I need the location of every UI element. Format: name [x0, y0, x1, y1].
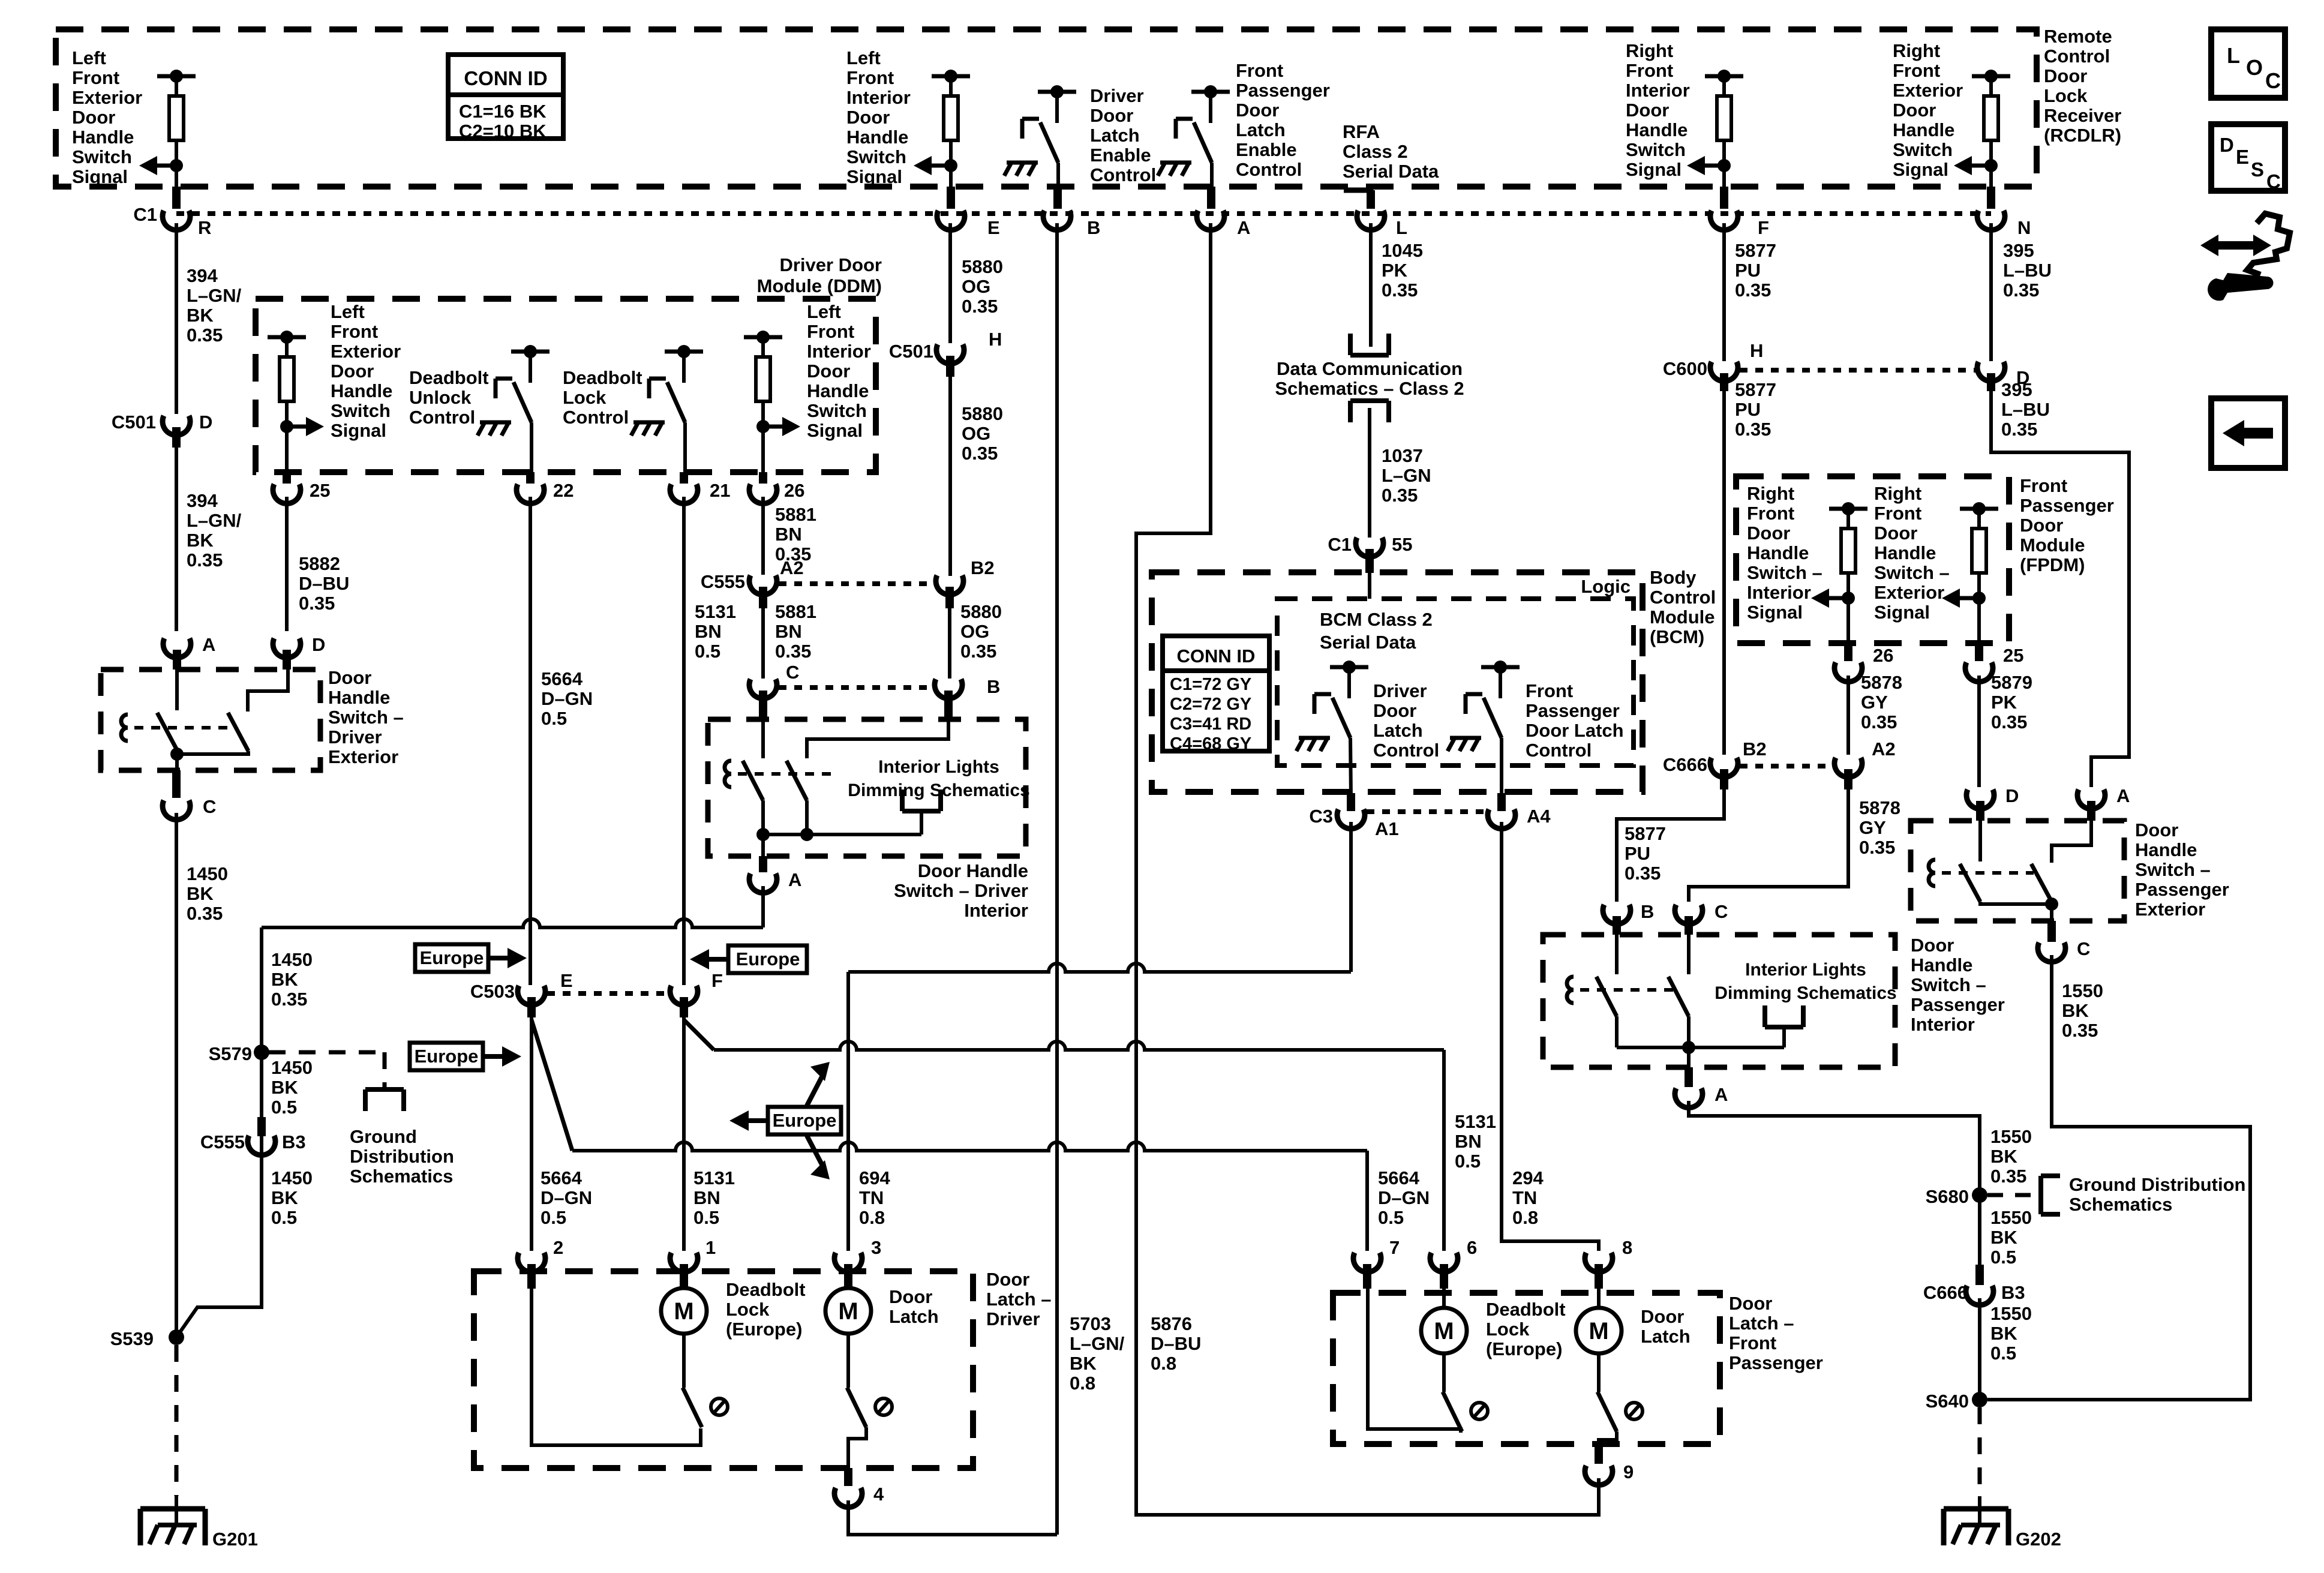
tag: Europe (to 5664 lower)	[410, 1043, 521, 1070]
svg-text:5703: 5703	[1070, 1313, 1111, 1334]
svg-text:CONN ID: CONN ID	[1177, 646, 1256, 667]
symbol: data communication link (lower bracket)	[1350, 401, 1389, 422]
svg-text:C1=72 GY: C1=72 GY	[1170, 675, 1251, 694]
svg-text:H: H	[989, 329, 1002, 350]
connector door latch passenger pin 8	[1585, 1237, 1632, 1289]
connector C666 pin B3	[1923, 1265, 2025, 1305]
svg-text:M: M	[1434, 1318, 1454, 1344]
label: 395 L-BU 0.35 (upper)	[2003, 240, 2052, 301]
label: 5877 PU 0.35 (middle)	[1735, 379, 1776, 440]
svg-text:1450: 1450	[271, 1057, 313, 1078]
symbol: ground distribution schematics link (passenger)	[2041, 1176, 2060, 1214]
svg-text:Front: Front	[1729, 1332, 1776, 1353]
svg-text:5131: 5131	[693, 1167, 735, 1188]
svg-text:(BCM): (BCM)	[1650, 626, 1704, 647]
svg-text:A: A	[788, 869, 801, 890]
pin tick R	[172, 187, 181, 209]
svg-text:Handle: Handle	[1911, 954, 1972, 975]
wire 5131 (F down to pin 1)	[682, 1017, 686, 1251]
svg-text:0.35: 0.35	[187, 325, 223, 346]
label: 5131 BN 0.5 (lower)	[693, 1167, 735, 1228]
svg-text:Left: Left	[331, 301, 365, 322]
text: Right Front Exterior Door Handle Switch Signal	[1893, 40, 1963, 180]
wire: S539 to G201 (dashed)	[175, 1345, 179, 1525]
svg-text:1550: 1550	[1990, 1126, 2032, 1147]
svg-text:0.35: 0.35	[187, 550, 223, 571]
svg-text:M: M	[838, 1298, 858, 1325]
pin tick E	[947, 187, 955, 209]
svg-text:3: 3	[871, 1237, 881, 1258]
wire: switch A down to ground run	[761, 886, 765, 927]
label: 395 L-BU 0.35 (lower)	[2001, 379, 2050, 440]
svg-text:Latch –: Latch –	[986, 1289, 1052, 1310]
label: 1450 BK 0.35 (S579 branch)	[271, 949, 313, 1010]
svg-text:Exterior: Exterior	[1893, 80, 1963, 101]
wire: pin 9 to 5876 run	[1597, 1478, 1601, 1479]
component box: door handle switch - driver exterior	[101, 670, 320, 770]
svg-text:C1: C1	[133, 204, 157, 225]
svg-text:B2: B2	[971, 557, 995, 578]
svg-text:C1: C1	[1328, 534, 1352, 555]
wire 1045 PK (L to data comm)	[1369, 223, 1373, 347]
wire 5879 PK (25 to exterior switch D)	[1977, 676, 1981, 787]
svg-text:4: 4	[873, 1484, 884, 1505]
pin tick N	[1987, 187, 1995, 209]
svg-text:Latch: Latch	[1641, 1326, 1691, 1347]
text: Ground Distribution Schematics (driver)	[350, 1126, 454, 1187]
svg-text:5877: 5877	[1735, 240, 1776, 261]
label: 5131 BN 0.5 (upper)	[695, 601, 736, 662]
label: 5877 PU 0.35 (top)	[1735, 240, 1776, 301]
wire 5880 OG (H to C555 B2)	[948, 377, 952, 576]
module box: Driver Door Module (DDM)	[256, 299, 876, 472]
svg-text:0.5: 0.5	[271, 1097, 297, 1118]
svg-text:Serial Data: Serial Data	[1343, 161, 1439, 182]
svg-text:0.35: 0.35	[1991, 712, 2027, 733]
label: 1450 BK 0.35	[187, 863, 228, 924]
svg-text:5877: 5877	[1625, 823, 1666, 844]
svg-text:Interior: Interior	[964, 900, 1028, 921]
svg-text:Deadbolt: Deadbolt	[563, 367, 642, 388]
connector C555 pin B2	[936, 557, 995, 608]
connector DDM pin 26	[749, 472, 804, 503]
svg-text:5880: 5880	[960, 601, 1002, 622]
svg-text:BK: BK	[1990, 1146, 2017, 1167]
svg-text:Switch – Driver: Switch – Driver	[894, 880, 1028, 901]
svg-text:0.35: 0.35	[1735, 280, 1771, 301]
svg-text:BN: BN	[1455, 1131, 1482, 1152]
wire: passenger latch enable to connector A	[1210, 163, 1214, 187]
svg-text:5882: 5882	[299, 553, 340, 574]
wire 395 L-BU (N to C600 D)	[1989, 223, 1993, 361]
wire 5877 PU (H to C666 B2)	[1722, 391, 1726, 755]
svg-text:Handle: Handle	[846, 127, 908, 148]
label: 5878 GY 0.35 (upper)	[1861, 672, 1902, 733]
wire: DDM lf int to pin 26	[761, 427, 765, 472]
wire 5703 L-GN/BK (B down to door latch driver)	[1055, 223, 1059, 1535]
switch: driver deadbolt motor limit	[683, 1334, 728, 1427]
svg-text:Remote: Remote	[2044, 26, 2112, 47]
svg-text:Exterior: Exterior	[331, 341, 401, 362]
svg-text:1550: 1550	[2062, 980, 2103, 1001]
connector C501 pin D	[112, 412, 213, 448]
splice S579	[209, 1043, 269, 1064]
svg-text:Latch: Latch	[1373, 720, 1423, 741]
svg-text:Handle: Handle	[1893, 119, 1954, 140]
svg-text:5878: 5878	[1861, 672, 1902, 693]
connector BCM C1 pin 55	[1328, 534, 1412, 573]
connector C1 pin F	[1710, 211, 1769, 238]
svg-text:Front: Front	[1526, 680, 1573, 701]
svg-text:9: 9	[1623, 1461, 1634, 1482]
text: Left Front Exterior Door Handle Switch Signal	[72, 47, 142, 187]
svg-text:0.35: 0.35	[299, 593, 335, 614]
connector C1 pin A	[1197, 211, 1250, 238]
svg-text:D–GN: D–GN	[541, 688, 593, 709]
svg-text:0.8: 0.8	[859, 1207, 885, 1228]
svg-text:Passenger: Passenger	[1729, 1352, 1823, 1373]
svg-text:Schematics: Schematics	[350, 1166, 453, 1187]
resistor: right front door handle switch interior (FPDM)	[1811, 502, 1867, 608]
svg-text:Passenger: Passenger	[1526, 700, 1620, 721]
svg-text:0.5: 0.5	[541, 708, 567, 729]
svg-text:Europe: Europe	[420, 947, 484, 968]
text: Deadbolt Unlock Control	[409, 367, 489, 428]
label: 5877 PU 0.35 (lower)	[1625, 823, 1666, 884]
svg-text:BK: BK	[187, 530, 214, 551]
text: Door Handle Switch - Passenger Exterior	[2135, 819, 2229, 920]
text: Deadbolt Lock Control	[563, 367, 642, 428]
connector: passenger exterior switch pin D	[1966, 785, 2019, 821]
text: Left Front Exterior Door Handle Switch Signal (DDM)	[331, 301, 401, 441]
svg-text:Handle: Handle	[1874, 542, 1936, 563]
svg-text:R: R	[198, 217, 211, 238]
svg-text:Switch: Switch	[807, 400, 867, 421]
svg-text:BN: BN	[775, 524, 802, 545]
connector DDM pin 25	[273, 472, 330, 503]
svg-text:E: E	[560, 970, 573, 991]
svg-text:0.8: 0.8	[1070, 1373, 1095, 1394]
svg-text:Door: Door	[846, 107, 890, 128]
label: 694 TN 0.8	[859, 1167, 890, 1228]
switch: front passenger door latch control (BCM)	[1448, 661, 1520, 751]
wire: driver latch control to C3 A1	[1350, 738, 1351, 798]
switch: door handle driver exterior (two blades)	[121, 670, 288, 770]
wire: driver deadbolt return to pin 2	[532, 1289, 701, 1445]
label: 5131 BN 0.5 (passenger side)	[1455, 1111, 1496, 1172]
connector BCM C3 pin A1	[1309, 793, 1398, 839]
svg-text:1045: 1045	[1382, 240, 1423, 261]
svg-text:BK: BK	[187, 305, 214, 326]
connector C600 pin H	[1663, 340, 1764, 391]
svg-text:BK: BK	[271, 969, 298, 990]
svg-text:Control: Control	[563, 407, 629, 428]
svg-text:8: 8	[1622, 1237, 1632, 1258]
svg-text:O: O	[2246, 55, 2263, 80]
svg-text:Control: Control	[1526, 740, 1592, 761]
svg-text:BCM Class 2: BCM Class 2	[1320, 609, 1433, 630]
svg-text:Switch –: Switch –	[1747, 562, 1822, 583]
svg-text:F: F	[711, 970, 723, 991]
svg-text:C: C	[2265, 68, 2281, 93]
resistor: right front exterior door handle switch (in top box)	[1954, 70, 2010, 175]
connector door latch driver pin 1	[670, 1237, 716, 1289]
label: 394 L-GN/BK 0.35 (lower)	[187, 490, 242, 571]
ground G202	[1944, 1509, 2061, 1550]
svg-text:0.35: 0.35	[187, 903, 223, 924]
svg-text:Lock: Lock	[1486, 1319, 1530, 1340]
wire: lf ext switch signal to connector R	[175, 166, 178, 187]
svg-text:Front: Front	[807, 321, 854, 342]
wire 5664 (E down to pin 2)	[530, 1017, 533, 1251]
svg-text:395: 395	[2003, 240, 2034, 261]
svg-text:Handle: Handle	[328, 687, 390, 708]
connector FPDM pin 26	[1834, 643, 1893, 682]
connector door latch passenger pin 6	[1430, 1237, 1477, 1289]
svg-text:Front: Front	[1747, 503, 1794, 524]
svg-text:0.35: 0.35	[1990, 1166, 2026, 1187]
connector: driver interior switch pin A	[749, 834, 801, 893]
connector: driver exterior switch pin C	[163, 770, 216, 819]
svg-text:Latch: Latch	[889, 1306, 939, 1327]
svg-text:Exterior: Exterior	[1874, 582, 1944, 603]
svg-text:Logic: Logic	[1581, 576, 1631, 597]
svg-text:(Europe): (Europe)	[726, 1319, 802, 1340]
connector C600 pin D	[1977, 362, 2029, 391]
wire: lf int switch signal to connector E	[949, 166, 953, 187]
tag: Europe (three-arrow, lower)	[729, 1062, 841, 1179]
svg-text:D–GN: D–GN	[541, 1187, 592, 1208]
svg-text:Handle: Handle	[331, 380, 392, 401]
svg-text:Europe: Europe	[415, 1046, 479, 1067]
text: Ground Distribution Schematics (passenger)	[2069, 1174, 2245, 1215]
svg-text:0.35: 0.35	[775, 641, 811, 662]
svg-text:294: 294	[1512, 1167, 1544, 1188]
svg-text:Door: Door	[807, 361, 850, 382]
svg-text:Left: Left	[807, 301, 841, 322]
wire: S640 to G202 (dashed)	[1978, 1407, 1982, 1525]
svg-text:5878: 5878	[1859, 797, 1900, 818]
svg-text:GY: GY	[1859, 817, 1886, 838]
svg-text:PK: PK	[1991, 692, 2017, 713]
splice S539	[110, 1328, 184, 1349]
svg-text:C503: C503	[470, 981, 515, 1002]
symbol: data communication link (upper bracket)	[1350, 334, 1389, 355]
svg-text:Schematics: Schematics	[2069, 1194, 2172, 1215]
wire 294 TN (A4 to passenger door latch)	[1502, 822, 1599, 1251]
connector DDM pin 22	[517, 472, 574, 503]
svg-text:L–BU: L–BU	[2003, 260, 2052, 281]
svg-text:L–GN/: L–GN/	[1070, 1333, 1125, 1354]
svg-text:C555: C555	[200, 1131, 245, 1152]
wire 5881 BN (26 to C555 A2)	[761, 497, 765, 575]
svg-text:5131: 5131	[695, 601, 736, 622]
label: 5881 BN 0.35 (lower)	[775, 601, 816, 662]
svg-text:Exterior: Exterior	[328, 746, 398, 767]
svg-text:C600: C600	[1663, 358, 1707, 379]
svg-text:Left: Left	[846, 47, 881, 68]
wire 1550 BK (A to S680)	[1689, 1101, 1980, 1188]
text: Driver Door Latch Control	[1373, 680, 1439, 761]
svg-text:Control: Control	[1373, 740, 1439, 761]
svg-text:D–BU: D–BU	[1151, 1333, 1201, 1354]
svg-text:5876: 5876	[1151, 1313, 1192, 1334]
svg-text:C: C	[2266, 170, 2281, 193]
component box: interior lights dimming (passenger door handle switch interior)	[1543, 935, 1895, 1067]
text: Deadbolt Lock (Europe) passenger	[1486, 1299, 1566, 1359]
svg-text:Driver Door: Driver Door	[779, 254, 882, 275]
svg-text:L–BU: L–BU	[2001, 399, 2050, 420]
svg-text:0.5: 0.5	[1378, 1207, 1404, 1228]
svg-text:Driver: Driver	[328, 727, 382, 748]
wire 1550 BK (C to S640 loop)	[1987, 955, 2250, 1400]
connector door latch passenger pin 7	[1353, 1237, 1400, 1289]
svg-text:Passenger: Passenger	[1911, 994, 2005, 1015]
component box: door handle switch - passenger exterior	[1911, 821, 2124, 921]
ground G201	[140, 1509, 258, 1550]
table: CONN ID (C1=16 BK / C2=10 BK)	[448, 55, 563, 142]
svg-text:Deadbolt: Deadbolt	[409, 367, 489, 388]
pin tick B	[1053, 187, 1062, 209]
switch: door handle passenger exterior (two blades)	[1929, 821, 2091, 921]
text: Deadbolt Lock (Europe) driver	[726, 1279, 806, 1340]
wire 5664 D-GN (22 to C503 E)	[529, 497, 532, 985]
svg-text:D–GN: D–GN	[1378, 1187, 1430, 1208]
svg-text:25: 25	[310, 480, 330, 501]
wire: S680 dashed to ground distribution	[1987, 1193, 2037, 1197]
module box: door handle switches / RCDLR (top dashed box)	[56, 29, 2037, 187]
svg-text:(FPDM): (FPDM)	[2020, 554, 2085, 575]
text: Door Latch (driver)	[889, 1286, 939, 1327]
svg-text:C: C	[786, 662, 799, 683]
svg-text:Right: Right	[1893, 40, 1940, 61]
svg-text:B3: B3	[2001, 1282, 2025, 1303]
svg-text:G202: G202	[2016, 1529, 2061, 1550]
svg-text:1550: 1550	[1990, 1303, 2032, 1324]
connector C666 pin B2	[1663, 739, 1767, 789]
motor: deadbolt lock (Europe) passenger	[1421, 1308, 1467, 1353]
icon: arrow-wrench (harness routing)	[2200, 214, 2290, 301]
svg-text:D: D	[2220, 134, 2234, 156]
connector C503 pin F	[670, 970, 723, 1017]
wire: 55 into BCM logic	[1368, 573, 1371, 599]
svg-text:GY: GY	[1861, 692, 1888, 713]
wire: passenger deadbolt return to pin 7	[1368, 1289, 1461, 1433]
wire 394 L-GN/BK (C501 to switch A)	[175, 448, 178, 631]
svg-text:Front: Front	[1626, 60, 1673, 81]
svg-text:Signal: Signal	[807, 420, 863, 441]
component box: door latch - driver	[474, 1271, 973, 1468]
svg-text:Door: Door	[2044, 65, 2087, 86]
svg-text:Passenger: Passenger	[2020, 495, 2114, 516]
svg-text:C: C	[2077, 938, 2090, 959]
svg-text:TN: TN	[859, 1187, 884, 1208]
svg-text:Serial Data: Serial Data	[1320, 632, 1416, 653]
svg-text:Door Handle: Door Handle	[918, 860, 1028, 881]
svg-text:BK: BK	[1990, 1323, 2017, 1344]
wire: C555 dotted link A2-B2	[779, 581, 933, 586]
svg-text:5131: 5131	[1455, 1111, 1496, 1132]
svg-text:1550: 1550	[1990, 1207, 2032, 1228]
text: Front Passenger Door Latch Control	[1526, 680, 1624, 761]
module box: Body Control Module (BCM)	[1152, 572, 1643, 792]
svg-text:L–GN: L–GN	[1382, 465, 1431, 486]
connector C1 pin N	[1977, 211, 2031, 238]
svg-text:Switch –: Switch –	[328, 707, 404, 728]
svg-text:F: F	[1758, 217, 1769, 238]
wire 5878 GY (A2 to passenger interior switch C)	[1689, 789, 1848, 902]
label: 5876 D-BU 0.8	[1151, 1313, 1201, 1374]
wire 1550 BK (S680 to C666 B3)	[1978, 1202, 1981, 1265]
svg-text:Front: Front	[1893, 60, 1940, 81]
svg-text:Dimming Schematics: Dimming Schematics	[1715, 983, 1896, 1003]
connector C555 pin B3	[200, 1117, 306, 1155]
wire 5877 PU (F to C600 H)	[1722, 223, 1726, 361]
connector: passenger interior switch pin A	[1675, 1047, 1728, 1107]
svg-text:0.5: 0.5	[1455, 1151, 1481, 1172]
svg-text:Europe: Europe	[773, 1110, 837, 1131]
svg-text:5664: 5664	[541, 1167, 582, 1188]
svg-text:Exterior: Exterior	[2135, 899, 2205, 920]
svg-text:Latch –: Latch –	[1729, 1313, 1794, 1334]
svg-text:Control: Control	[1650, 587, 1716, 608]
svg-text:Door: Door	[1874, 523, 1917, 544]
svg-text:26: 26	[784, 480, 804, 501]
wire 5882 D-BU	[285, 497, 289, 631]
wire: FPDM interior to pin 26	[1846, 598, 1850, 643]
svg-text:Door: Door	[1747, 523, 1790, 544]
wire: deadbolt unlock to pin 22	[530, 422, 533, 472]
svg-text:C501: C501	[112, 412, 156, 433]
switch: driver door latch motor limit	[847, 1334, 892, 1427]
label: 5664 D-GN 0.5 (upper)	[541, 668, 593, 729]
svg-text:Front: Front	[2020, 475, 2067, 496]
svg-text:S539: S539	[110, 1328, 154, 1349]
svg-text:Module: Module	[2020, 535, 2085, 556]
svg-text:C2=72 GY: C2=72 GY	[1170, 695, 1251, 714]
svg-text:C666: C666	[1923, 1282, 1968, 1303]
svg-text:0.8: 0.8	[1151, 1353, 1176, 1374]
svg-text:Latch: Latch	[1236, 119, 1286, 140]
svg-text:395: 395	[2001, 379, 2032, 400]
pin tick L	[1367, 190, 1375, 209]
resistor: left front interior door handle switch (in top box)	[914, 70, 970, 175]
svg-text:Door: Door	[1911, 935, 1954, 956]
svg-text:0.35: 0.35	[1861, 712, 1897, 733]
svg-text:21: 21	[710, 480, 730, 501]
svg-text:Switch: Switch	[846, 146, 906, 167]
svg-text:Module (DDM): Module (DDM)	[757, 275, 882, 296]
svg-text:BK: BK	[1990, 1227, 2017, 1248]
svg-text:0.5: 0.5	[1990, 1247, 2016, 1268]
wire: pins C-B dotted link	[779, 685, 933, 690]
label: 5664 D-GN 0.5 (passenger side)	[1378, 1167, 1430, 1228]
connector C666 pin A2	[1834, 739, 1896, 789]
text: Body Control Module (BCM)	[1650, 567, 1716, 647]
text: Door Handle Switch - Driver Exterior	[328, 667, 404, 767]
resistor: right front door handle switch exterior (FPDM)	[1942, 502, 1998, 608]
wire 5881 BN (A2 to switch pin C)	[761, 608, 765, 679]
svg-text:Signal: Signal	[846, 166, 902, 187]
svg-text:Left: Left	[72, 47, 106, 68]
svg-text:Ground Distribution: Ground Distribution	[2069, 1174, 2245, 1195]
svg-text:L: L	[2227, 43, 2240, 68]
svg-text:0.5: 0.5	[695, 641, 720, 662]
text: Door Latch (passenger)	[1641, 1306, 1691, 1347]
wire 394 L-GN/BK (R to C501 D)	[175, 223, 178, 414]
text: Left Front Interior Door Handle Switch Signal (DDM)	[807, 301, 871, 441]
svg-text:Front: Front	[1236, 60, 1283, 81]
